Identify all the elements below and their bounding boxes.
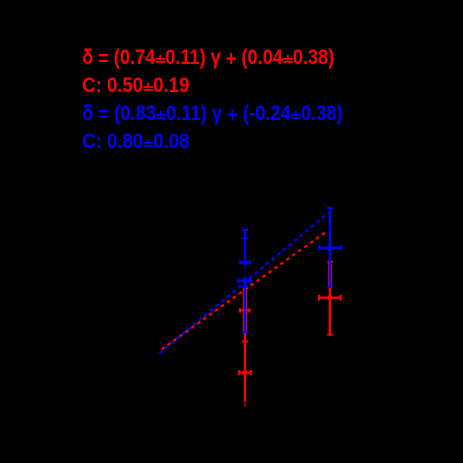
red vertical error bar under blue (point F upper) bbox=[328, 262, 332, 288]
blue vertical error bar (point E) bbox=[329, 208, 331, 287]
blue vertical error bar upper segment bbox=[244, 230, 246, 265]
svg-text:C: 0.50±0.19: C: 0.50±0.19 bbox=[82, 74, 189, 97]
red point F marker bbox=[327, 295, 333, 301]
blue point B marker bbox=[242, 278, 248, 284]
red vertical error bar (point D) bbox=[244, 332, 246, 401]
red vertical error bar (point F) bbox=[329, 288, 331, 335]
fit text blue line 3 bbox=[82, 102, 343, 153]
fit text red line 1 bbox=[82, 46, 334, 97]
red cap y=341.5 bbox=[242, 341, 248, 343]
blue dashed fit line bbox=[160, 212, 330, 353]
red vertical error bar under blue (point C) bbox=[243, 288, 247, 332]
blue vertical error bar lower segment bbox=[244, 278, 246, 332]
red cap y=334.7 bbox=[327, 334, 333, 336]
plus-minus symbols drawn as paths (red) bbox=[143, 55, 292, 90]
red point F horizontal error bar bbox=[318, 297, 341, 299]
red point D horizontal error bar bbox=[238, 372, 252, 374]
svg-text:C: 0.80±0.08: C: 0.80±0.08 bbox=[82, 130, 189, 153]
red cap y=261.6 bbox=[327, 261, 333, 263]
blue point E marker bbox=[327, 245, 333, 251]
red point C horizontal error bar bbox=[239, 309, 250, 311]
blue point E horizontal error bar bbox=[318, 247, 341, 250]
blue point A marker bbox=[242, 260, 247, 265]
blue cap y=208 bbox=[327, 207, 333, 209]
red point C marker bbox=[243, 308, 248, 313]
blue cap y=286.6 bbox=[241, 286, 248, 288]
plus-minus symbols drawn as paths (blue) bbox=[143, 111, 300, 146]
red point D marker bbox=[242, 370, 248, 376]
blue cap y=229.9 bbox=[242, 229, 248, 231]
red dashed fit line bbox=[160, 230, 329, 350]
svg-text:δ = (0.74±0.11) γ + (0.04±0.38: δ = (0.74±0.11) γ + (0.04±0.38) bbox=[82, 46, 334, 71]
blue vertical error bar dim segment between points A and B bbox=[244, 265, 246, 278]
blue point A horizontal error bar bbox=[239, 261, 251, 263]
blue point B horizontal error bar bbox=[237, 280, 251, 282]
blue cap y=238.4 bbox=[242, 237, 248, 239]
blue cap y=331.9 bbox=[242, 331, 248, 333]
svg-text:δ = (0.83±0.11) γ + (-0.24±0.3: δ = (0.83±0.11) γ + (-0.24±0.38) bbox=[82, 102, 343, 127]
blue cap y=287.3 bbox=[327, 286, 333, 288]
